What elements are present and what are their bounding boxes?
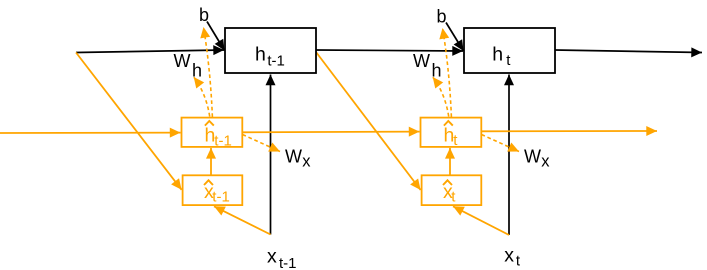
- box hhat_t: [421, 118, 482, 147]
- wire: dashed arrow hhat_t to b: [443, 28, 452, 117]
- svg-text:W: W: [285, 147, 302, 167]
- box hhat_t-1: [182, 118, 243, 147]
- svg-text:W: W: [524, 147, 541, 167]
- wire: dashed arrow hhat_t-1 to W_h: [194, 77, 210, 117]
- svg-text:x: x: [541, 153, 550, 171]
- wire: orange line hhat_t to right: [479, 130, 657, 132]
- svg-text:t-1: t-1: [212, 189, 230, 206]
- wire: main black input line into h_t-1: [76, 50, 224, 53]
- svg-text:b: b: [437, 7, 447, 27]
- wire: orange vertical xhat_t to hhat_t: [449, 148, 451, 175]
- wire: orange arrow from x_t-1 point into xhat_t-1: [214, 206, 271, 234]
- svg-text:t-1: t-1: [279, 255, 297, 270]
- svg-text:W: W: [413, 51, 430, 71]
- wire: orange diagonal into xhat_t-1: [76, 53, 182, 190]
- wire: black vertical line from x_t into h_t: [508, 75, 510, 236]
- wire: orange line hhat_t-1 to hhat_t: [242, 131, 419, 134]
- svg-text:x: x: [302, 153, 311, 171]
- box h_t: [464, 28, 555, 73]
- wire: dashed arrow hhat_t to W_x: [482, 135, 520, 152]
- svg-text:t-1: t-1: [214, 133, 232, 150]
- wire: black arrow from b into h_t: [446, 23, 464, 52]
- svg-text:x: x: [504, 245, 514, 267]
- wire: orange diagonal into xhat_t: [316, 52, 421, 190]
- wire: black arrow from b into h_t-1: [207, 22, 225, 51]
- wire: dashed arrow hhat_t-1 to b: [204, 27, 213, 117]
- wire: black vertical line from x_t-1 into h_t-1: [270, 75, 272, 235]
- wire: black line h_t-1 to h_t: [316, 50, 463, 51]
- wire: orange vertical xhat_t-1 to hhat_t-1: [210, 148, 212, 175]
- svg-text:h: h: [192, 60, 202, 80]
- svg-text:h: h: [255, 44, 266, 66]
- svg-text:x: x: [267, 246, 277, 268]
- svg-text:h: h: [492, 44, 503, 66]
- wire: orange main line into hhat_t-1: [0, 132, 181, 134]
- wire: black output line from h_t to right edge: [555, 50, 702, 53]
- box h_t-1: [225, 28, 316, 73]
- wire: orange arrow from x_t point into xhat_t: [453, 206, 509, 235]
- svg-text:h: h: [432, 60, 442, 80]
- wire: dashed arrow hhat_t to W_h: [433, 77, 449, 117]
- svg-text:t-1: t-1: [267, 53, 285, 70]
- box xhat_t: [422, 175, 482, 205]
- svg-text:W: W: [174, 51, 191, 71]
- wire: dashed arrow hhat_t-1 to W_x: [243, 135, 281, 152]
- box xhat_t-1: [183, 175, 243, 205]
- svg-text:b: b: [199, 5, 209, 25]
